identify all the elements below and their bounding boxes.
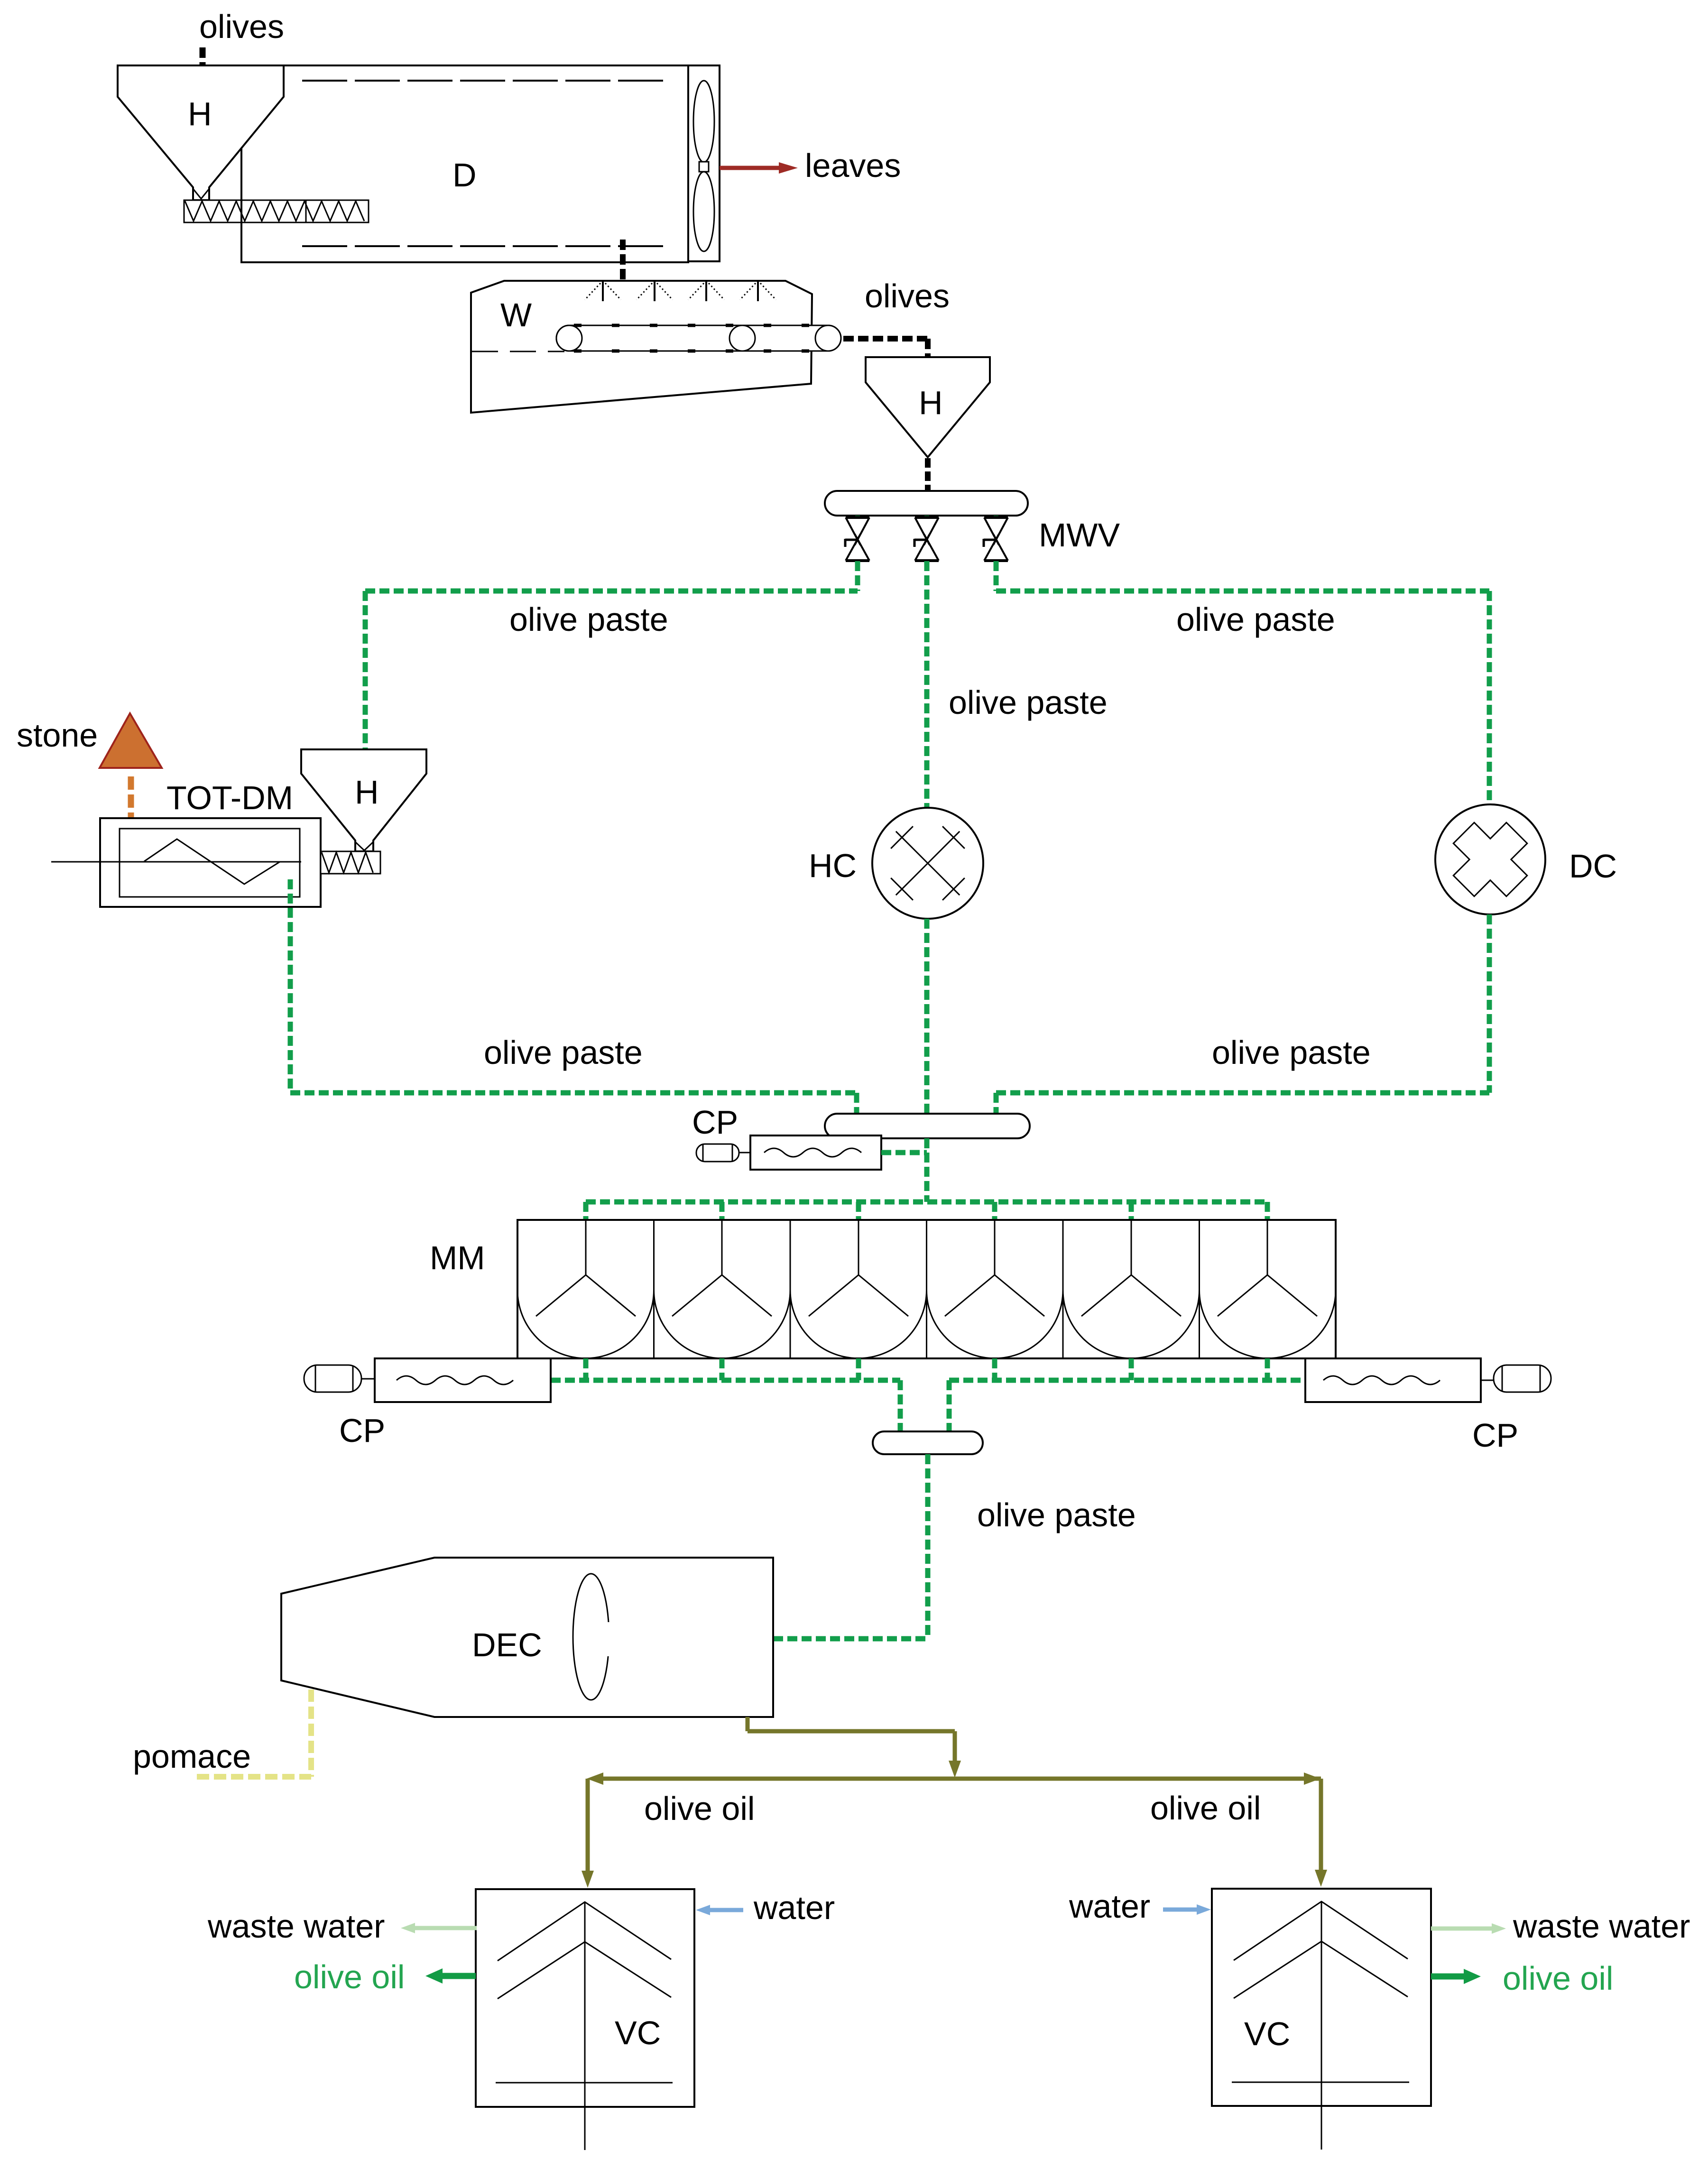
decanter DEC	[281, 1558, 773, 1717]
svg-text:H: H	[919, 384, 943, 421]
olive paste label (center)	[949, 684, 1108, 721]
olives label (middle)	[865, 277, 950, 314]
olives feed label (top)	[199, 8, 284, 45]
stone dashed line (orange)	[128, 776, 134, 848]
waste water label (left)	[207, 1908, 385, 1945]
olives dashed line from washer to hopper H2	[843, 339, 929, 357]
leaves label	[805, 147, 901, 184]
svg-text:water: water	[753, 1889, 835, 1926]
pump CP (bottom right)	[1305, 1358, 1551, 1402]
leaves arrow (red)	[720, 162, 798, 174]
svg-text:VC: VC	[1244, 2015, 1290, 2052]
stone arrow (orange triangle)	[100, 713, 162, 768]
svg-text:olive paste: olive paste	[509, 601, 668, 638]
olive paste line: DC down to CP manifold	[996, 914, 1489, 1114]
olive oil out label (right, green)	[1503, 1960, 1613, 1997]
hopper H1 (reception hopper)	[118, 65, 284, 200]
small collection manifold under MM	[873, 1431, 983, 1454]
olive oil line from DEC	[748, 1717, 961, 1778]
olive oil header line	[587, 1772, 1321, 1785]
svg-text:olives: olives	[199, 8, 284, 45]
olives feed dashed line into hopper H1	[200, 47, 206, 89]
svg-text:DC: DC	[1569, 848, 1617, 885]
olive oil drop to left VC	[582, 1779, 594, 1888]
olive oil out label (left, green)	[294, 1958, 405, 1995]
olive oil arrow out of left VC (green)	[425, 1968, 476, 1984]
svg-text:CP: CP	[339, 1412, 385, 1449]
washer W water level dashed line	[472, 351, 564, 352]
DC label	[1569, 848, 1617, 885]
TOT-DM label	[166, 779, 293, 816]
CP label (bottom left)	[339, 1412, 385, 1449]
svg-text:olive paste: olive paste	[977, 1496, 1136, 1533]
svg-text:olive paste: olive paste	[1212, 1034, 1371, 1071]
svg-text:olive paste: olive paste	[484, 1034, 643, 1071]
svg-text:H: H	[188, 95, 212, 132]
svg-text:olive oil: olive oil	[1150, 1790, 1261, 1827]
defoliator D label	[452, 157, 477, 194]
olive paste line: center valve to crusher HC	[924, 561, 930, 808]
MM label	[430, 1239, 485, 1276]
hopper H2 (mill feed hopper)	[866, 357, 990, 457]
waste water label (right)	[1513, 1908, 1690, 1945]
olive paste line: manifold down to MM feed line	[924, 1138, 930, 1202]
olive paste label (upper left)	[509, 601, 668, 638]
hammer crusher HC	[872, 808, 983, 919]
olive paste label (above DEC)	[977, 1496, 1136, 1533]
svg-text:MWV: MWV	[1039, 517, 1120, 554]
svg-text:water: water	[1069, 1888, 1150, 1925]
svg-text:VC: VC	[615, 2014, 661, 2051]
defoliator fan	[688, 65, 720, 261]
MWV label	[1039, 517, 1120, 554]
svg-text:olive paste: olive paste	[949, 684, 1108, 721]
svg-text:CP: CP	[1472, 1417, 1518, 1454]
TOT-DM destoner machine	[51, 818, 321, 907]
olive paste line: CP pump outlet	[881, 1150, 927, 1155]
vertical centrifuge VC (left)	[476, 1889, 694, 2150]
olive oil arrow out of right VC (green)	[1431, 1969, 1481, 1984]
olive paste line: HC down to CP manifold	[924, 919, 930, 1114]
svg-text:olive oil: olive oil	[1503, 1960, 1613, 1997]
disc crusher DC	[1435, 804, 1545, 914]
washer W body	[471, 281, 812, 413]
svg-text:HC: HC	[809, 847, 857, 884]
svg-text:CP: CP	[692, 1104, 738, 1141]
svg-text:olives: olives	[865, 277, 950, 314]
svg-text:MM: MM	[430, 1239, 485, 1276]
pump CP (bottom left)	[304, 1358, 551, 1402]
VC label (left)	[615, 2014, 661, 2051]
svg-text:waste water: waste water	[1513, 1908, 1690, 1945]
olive paste line: manifold to decanter DEC	[773, 1454, 928, 1639]
washer W conveyor belt with rollers	[556, 325, 841, 351]
water label (right)	[1069, 1888, 1150, 1925]
MWV distribution manifold	[825, 491, 1028, 516]
CP collection manifold	[825, 1114, 1030, 1138]
svg-text:olive oil: olive oil	[294, 1958, 405, 1995]
screw conveyor under hopper H3	[321, 851, 380, 874]
CP label (top)	[692, 1104, 738, 1141]
olive paste label (upper right)	[1176, 601, 1335, 638]
DEC label	[472, 1626, 542, 1663]
svg-text:D: D	[452, 157, 477, 194]
svg-text:TOT-DM: TOT-DM	[166, 779, 293, 816]
svg-text:DEC: DEC	[472, 1626, 542, 1663]
svg-text:W: W	[500, 296, 532, 333]
defoliator D inner top dashed screen	[302, 80, 670, 82]
water arrow into right VC (blue)	[1163, 1904, 1211, 1915]
malaxer MM (6 cells with bowls and agitators)	[517, 1220, 1336, 1358]
washer W spray nozzles	[585, 281, 776, 301]
defoliator D body	[241, 65, 688, 262]
olive paste collection line under MM	[551, 1358, 1305, 1431]
svg-text:stone: stone	[17, 717, 98, 754]
olive paste label (mid left)	[484, 1034, 643, 1071]
stone label	[17, 717, 98, 754]
olives dashed drop from H2 to MWV manifold	[925, 458, 931, 491]
hopper H3	[301, 749, 426, 851]
pomace dashed line (yellow)	[197, 1689, 311, 1777]
water arrow into left VC (blue)	[696, 1905, 743, 1915]
HC label	[809, 847, 857, 884]
hopper H2 label H	[919, 384, 943, 421]
waste water arrow out of left VC (light green)	[401, 1923, 477, 1933]
olive paste feed line to malaxer MM	[586, 1202, 1267, 1220]
washer W label	[500, 296, 532, 333]
olive paste line: left valve to hopper H3	[365, 561, 858, 749]
vertical centrifuge VC (right)	[1212, 1889, 1431, 2150]
defoliator D left wall segment	[240, 148, 242, 262]
MWV valves (3 bowtie valves)	[845, 516, 1008, 561]
olive oil label (right)	[1150, 1790, 1261, 1827]
defoliator D inner bottom dashed screen	[302, 245, 670, 247]
olive oil label (left)	[644, 1790, 755, 1827]
svg-text:olive paste: olive paste	[1176, 601, 1335, 638]
pomace label	[133, 1738, 251, 1775]
screw conveyor under hopper H1	[184, 200, 369, 222]
olive paste label (mid right)	[1212, 1034, 1371, 1071]
hopper H3 label H	[355, 774, 379, 811]
olive paste line: TOT-DM to CP manifold	[290, 1093, 857, 1114]
svg-text:H: H	[355, 774, 379, 811]
olive paste line: TOT-DM outlet down	[288, 879, 293, 1093]
water label (left)	[753, 1889, 835, 1926]
olive paste line: right valve to crusher DC	[996, 561, 1489, 804]
VC label (right)	[1244, 2015, 1290, 2052]
svg-text:olive oil: olive oil	[644, 1790, 755, 1827]
svg-text:waste water: waste water	[207, 1908, 385, 1945]
CP label (bottom right)	[1472, 1417, 1518, 1454]
olive oil drop to right VC	[1315, 1779, 1327, 1887]
svg-text:pomace: pomace	[133, 1738, 251, 1775]
pump CP (top, after manifold)	[696, 1135, 881, 1170]
olives dashed drop from D to washer W	[620, 240, 626, 288]
svg-text:leaves: leaves	[805, 147, 901, 184]
hopper H1 label H	[188, 95, 212, 132]
waste water arrow out of right VC (light green)	[1431, 1923, 1506, 1934]
